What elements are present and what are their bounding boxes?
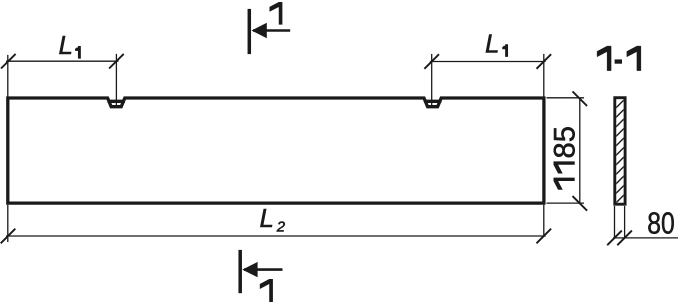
- tick L1 left at right end: [109, 54, 124, 69]
- tick 1185 bottom: [573, 196, 588, 211]
- section cut mark top: thick line: [248, 9, 252, 54]
- panel outline (plan view) with two lifting-loop recesses: [8, 98, 544, 203]
- extension line bottom right (for L2): [543, 205, 545, 237]
- dimension line 80: [613, 237, 678, 239]
- tick 80 right: [617, 231, 632, 246]
- extension line notch 2 center: [431, 54, 433, 106]
- extension line section right (for 80): [624, 206, 626, 239]
- section cut mark top: label 1: [270, 2, 283, 25]
- tick L2 right: [537, 229, 552, 244]
- extension line section left (for 80): [614, 206, 616, 239]
- dimension line L1 right: [430, 61, 546, 63]
- section cut mark bottom: label 1: [260, 279, 273, 302]
- section cut mark bottom: arrowhead: [242, 262, 257, 277]
- extension line bottom right of panel (for 1185): [547, 202, 585, 204]
- svg-text:L: L: [485, 29, 499, 59]
- tick L2 left: [1, 229, 16, 244]
- section view panel cross-section rectangle: [615, 98, 625, 205]
- tick L1 right at left end: [424, 54, 439, 69]
- section cut mark bottom: thick line: [238, 250, 242, 293]
- section cut mark top: arrow tail: [253, 29, 290, 32]
- dimension line L1 left: [6, 60, 119, 62]
- tick 80 left: [607, 231, 622, 246]
- section cut mark top: arrowhead: [252, 23, 267, 38]
- section view title 1-1: [597, 46, 641, 71]
- tick L1 left at left end: [1, 54, 16, 69]
- svg-text:85: 85: [550, 126, 582, 158]
- extension line right edge above panel (for L1 right): [543, 54, 545, 97]
- extension line left edge (for L1 left): [7, 55, 9, 97]
- label L1 left subscript 1: [75, 46, 81, 59]
- label L1 right subscript 1: [502, 44, 508, 57]
- extension line bottom left (for L2): [7, 205, 9, 242]
- lifting loop bar in notch 1: [108, 100, 125, 103]
- svg-text:80: 80: [647, 206, 675, 241]
- extension line notch 1 center: [115, 54, 117, 106]
- tick 1185 top: [573, 91, 588, 106]
- section cut mark bottom: arrow tail: [244, 268, 283, 271]
- tick L1 right at right end: [537, 54, 552, 69]
- dimension line 1185: [579, 98, 581, 204]
- extension line top right of panel (for 1185): [547, 97, 585, 99]
- lifting loop bar in notch 2: [424, 100, 441, 103]
- label 1185 (rotated): [550, 126, 582, 190]
- section view hatching: [610, 94, 630, 218]
- dimension line L2: [6, 235, 546, 237]
- svg-text:L: L: [59, 30, 73, 60]
